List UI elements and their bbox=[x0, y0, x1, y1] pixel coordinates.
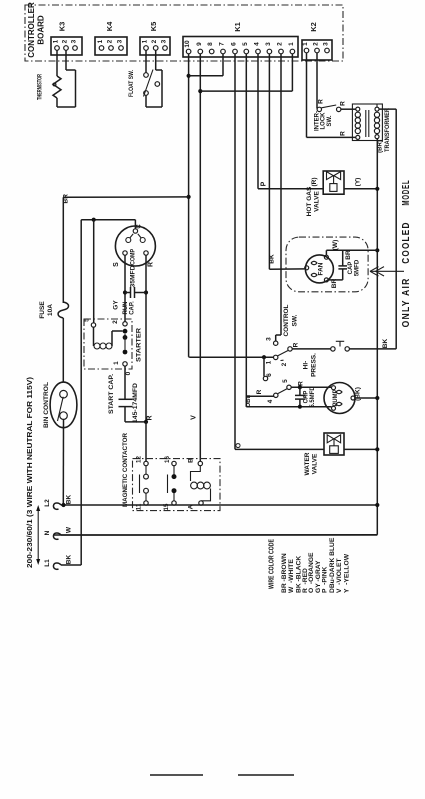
svg-text:O -ORANGE: O -ORANGE bbox=[308, 552, 315, 593]
svg-text:BR -BROWN: BR -BROWN bbox=[281, 553, 288, 593]
svg-text:VALVE: VALVE bbox=[314, 190, 321, 211]
svg-text:3: 3 bbox=[266, 337, 273, 341]
svg-text:START CAP.: START CAP. bbox=[108, 374, 115, 414]
svg-text:BK: BK bbox=[66, 495, 73, 505]
svg-text:1: 1 bbox=[97, 39, 104, 43]
svg-text:(Y): (Y) bbox=[355, 178, 362, 187]
svg-text:STARTER: STARTER bbox=[136, 328, 143, 362]
svg-text:3: 3 bbox=[71, 39, 78, 43]
svg-text:12: 12 bbox=[136, 456, 143, 463]
svg-text:L2: L2 bbox=[44, 499, 51, 507]
svg-text:BR: BR bbox=[331, 279, 338, 289]
svg-text:15: 15 bbox=[163, 503, 170, 510]
svg-text:DBu-DARK BLUE: DBu-DARK BLUE bbox=[329, 537, 336, 593]
svg-text:COMP: COMP bbox=[131, 249, 137, 265]
svg-text:SW.: SW. bbox=[327, 115, 333, 126]
svg-text:145-174MFD: 145-174MFD bbox=[132, 383, 139, 423]
svg-text:(BR): (BR) bbox=[378, 140, 384, 153]
svg-text:6: 6 bbox=[231, 42, 238, 46]
svg-text:R: R bbox=[256, 389, 263, 394]
svg-text:WATER: WATER bbox=[304, 452, 311, 475]
svg-text:K5: K5 bbox=[149, 22, 158, 32]
svg-text:P -PINK: P -PINK bbox=[322, 566, 329, 593]
svg-text:1: 1 bbox=[266, 360, 273, 364]
svg-text:LOCK: LOCK bbox=[321, 112, 327, 130]
svg-text:P: P bbox=[261, 181, 268, 186]
svg-text:R: R bbox=[298, 381, 305, 386]
svg-text:1: 1 bbox=[142, 39, 149, 43]
svg-text:10A: 10A bbox=[47, 304, 54, 316]
svg-text:(W): (W) bbox=[332, 240, 339, 250]
svg-text:MAGNETIC CONTACTOR: MAGNETIC CONTACTOR bbox=[122, 432, 129, 507]
svg-text:K4: K4 bbox=[105, 21, 114, 31]
svg-text:2: 2 bbox=[313, 42, 320, 46]
svg-text:CAP: CAP bbox=[348, 262, 354, 275]
svg-text:CAP: CAP bbox=[304, 391, 310, 404]
svg-text:ONLY AIR: ONLY AIR bbox=[401, 277, 412, 327]
svg-text:1: 1 bbox=[288, 42, 295, 46]
svg-text:THERMISTOR: THERMISTOR bbox=[38, 74, 44, 100]
svg-text:K2: K2 bbox=[309, 22, 318, 32]
svg-text:K1: K1 bbox=[233, 22, 242, 32]
svg-text:7: 7 bbox=[219, 42, 226, 46]
svg-text:V -VIOLET: V -VIOLET bbox=[336, 558, 343, 593]
svg-text:HOT GAS: HOT GAS bbox=[306, 186, 313, 216]
svg-text:3: 3 bbox=[323, 42, 330, 46]
svg-text:W: W bbox=[66, 526, 73, 533]
svg-text:BOARD: BOARD bbox=[37, 15, 46, 45]
svg-text:HI-: HI- bbox=[303, 361, 310, 370]
svg-text:9: 9 bbox=[196, 42, 203, 46]
svg-text:Y -YELLOW: Y -YELLOW bbox=[343, 553, 350, 593]
svg-text:RUN: RUN bbox=[123, 302, 129, 315]
svg-text:5: 5 bbox=[84, 318, 91, 322]
svg-text:3: 3 bbox=[117, 39, 124, 43]
svg-text:200-230/60/1 (3 WIRE WITH NEUT: 200-230/60/1 (3 WIRE WITH NEUTRAL FOR 11… bbox=[27, 377, 34, 568]
svg-text:PRESS.: PRESS. bbox=[311, 353, 318, 377]
svg-text:2: 2 bbox=[112, 320, 119, 324]
svg-text:3: 3 bbox=[265, 42, 272, 46]
svg-text:(BK): (BK) bbox=[355, 387, 362, 401]
svg-text:N: N bbox=[44, 530, 51, 535]
svg-text:35MFD: 35MFD bbox=[131, 265, 137, 288]
svg-text:S: S bbox=[113, 262, 120, 267]
svg-text:GY: GY bbox=[113, 300, 120, 310]
svg-text:TRANSFORMER: TRANSFORMER bbox=[384, 108, 391, 152]
svg-text:BK: BK bbox=[269, 254, 276, 264]
svg-text:6: 6 bbox=[266, 373, 273, 377]
svg-text:K3: K3 bbox=[58, 22, 67, 32]
svg-text:11: 11 bbox=[136, 503, 143, 510]
svg-text:R: R bbox=[318, 99, 325, 104]
svg-text:2: 2 bbox=[62, 39, 69, 43]
svg-text:B: B bbox=[188, 458, 195, 463]
svg-text:FUSE: FUSE bbox=[39, 301, 46, 319]
svg-text:R: R bbox=[148, 262, 155, 267]
svg-text:CAP.: CAP. bbox=[130, 301, 136, 315]
svg-text:VALVE: VALVE bbox=[312, 453, 319, 474]
svg-text:W -WHITE: W -WHITE bbox=[288, 559, 295, 593]
svg-text:O: O bbox=[236, 442, 243, 448]
svg-text:2: 2 bbox=[151, 39, 158, 43]
svg-text:FAN: FAN bbox=[319, 263, 325, 276]
svg-text:1: 1 bbox=[113, 361, 120, 365]
svg-text:5: 5 bbox=[242, 42, 249, 46]
svg-text:R: R bbox=[147, 415, 154, 420]
svg-text:10: 10 bbox=[184, 40, 191, 48]
svg-text:R: R bbox=[340, 101, 347, 106]
svg-text:1: 1 bbox=[53, 39, 60, 43]
svg-text:4: 4 bbox=[267, 399, 274, 403]
svg-text:16: 16 bbox=[164, 456, 171, 463]
svg-text:4: 4 bbox=[254, 42, 261, 46]
svg-text:5.5MFD: 5.5MFD bbox=[310, 386, 316, 408]
svg-text:R: R bbox=[340, 131, 347, 136]
svg-text:BR: BR bbox=[345, 250, 352, 260]
svg-text:R: R bbox=[293, 342, 300, 347]
svg-text:MODEL: MODEL bbox=[401, 180, 412, 206]
svg-text:2: 2 bbox=[281, 362, 288, 366]
svg-text:3: 3 bbox=[161, 39, 168, 43]
svg-text:2: 2 bbox=[107, 39, 114, 43]
svg-text:(R): (R) bbox=[311, 177, 318, 186]
svg-text:WIRE COLOR CODE: WIRE COLOR CODE bbox=[269, 539, 276, 589]
svg-text:8: 8 bbox=[207, 42, 214, 46]
svg-text:CONTROLLER: CONTROLLER bbox=[27, 2, 36, 58]
svg-text:0: 0 bbox=[125, 371, 132, 375]
svg-text:BK: BK bbox=[66, 555, 73, 565]
svg-text:SW.: SW. bbox=[292, 314, 299, 326]
svg-text:CONTROL: CONTROL bbox=[283, 304, 290, 336]
svg-text:C: C bbox=[137, 224, 143, 229]
svg-text:5MFD: 5MFD bbox=[355, 259, 361, 276]
svg-text:1: 1 bbox=[302, 42, 309, 46]
svg-text:BIN CONTROL: BIN CONTROL bbox=[43, 382, 50, 428]
svg-text:5: 5 bbox=[282, 379, 289, 383]
svg-text:V: V bbox=[191, 415, 198, 420]
svg-text:FLOAT SW.: FLOAT SW. bbox=[129, 70, 135, 97]
svg-text:2: 2 bbox=[277, 42, 284, 46]
svg-text:L1: L1 bbox=[44, 559, 51, 567]
svg-text:BK: BK bbox=[382, 339, 389, 349]
svg-text:COOLED: COOLED bbox=[401, 221, 412, 263]
